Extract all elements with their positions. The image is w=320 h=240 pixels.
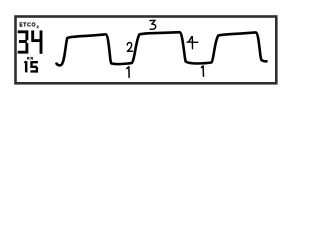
annotation 1 (first trough) xyxy=(127,67,129,78)
svg-text:ETCO: ETCO xyxy=(19,23,36,29)
annotation 3 xyxy=(150,20,156,29)
annotation 1 (second trough) xyxy=(201,66,203,76)
digit 3 of 34 xyxy=(18,32,27,52)
digit 1 of 15 xyxy=(24,61,26,72)
digit 5 of 15 xyxy=(30,62,38,71)
annotation 4 xyxy=(187,37,198,49)
annotation 2 xyxy=(127,43,132,52)
svg-text:RR: RR xyxy=(27,57,34,61)
digit 4 of 34 xyxy=(31,30,42,53)
capnogram waveform xyxy=(57,32,267,65)
frame (monitor screen border) xyxy=(16,17,277,84)
